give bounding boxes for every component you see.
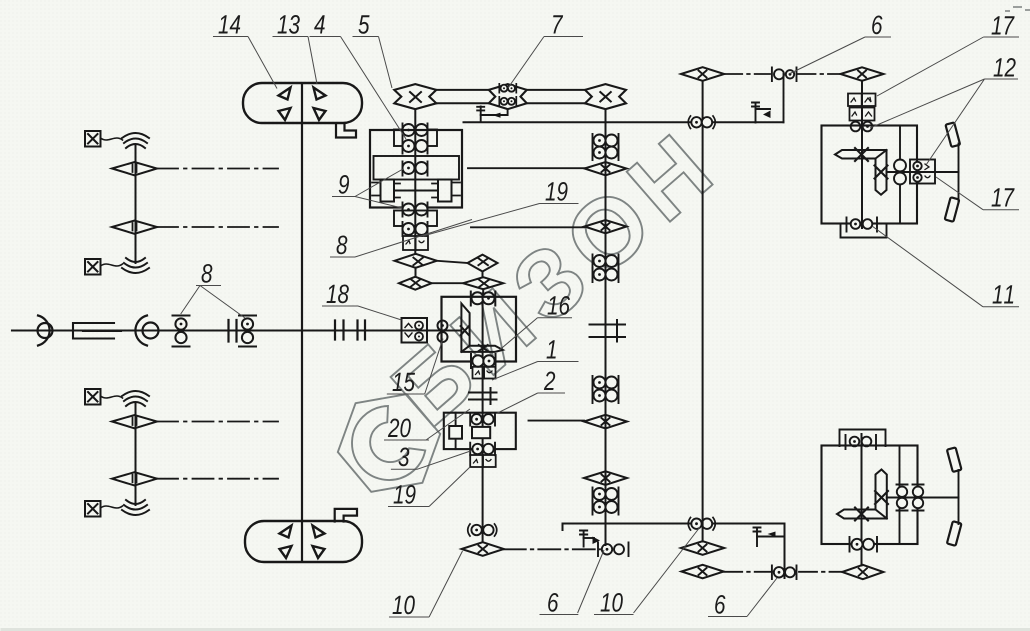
tire top [243,83,362,123]
label 17 [992,16,1015,34]
gearbox 9 shaft from pulley [414,109,416,254]
gearbox 9 chain pair row2 [403,140,428,154]
shaft x=861.5 bottom assembly [861,434,863,566]
label 15 [393,373,416,391]
pulley diamond L3 [112,415,157,428]
crank link (bottom assy) [958,470,960,524]
gearbox 9 lower bracket [394,211,437,227]
label 1 [547,340,556,358]
double-tick coupling x=339 [335,321,344,340]
spring squiggle 3 [122,391,149,406]
leader 9 [332,169,403,208]
gearbox 18 worm glyphs [405,324,412,338]
leader 3 [391,451,472,470]
leader 7 [508,37,583,89]
chain sprocket v-pair on axle x=247.5 [239,316,256,347]
crank link [958,144,960,202]
belt diamond left row1 [395,254,437,268]
leader 18 [322,306,402,320]
leader 5 [353,37,393,89]
double-tick coupling x=232 [229,320,237,342]
watermark text [390,134,713,428]
label 10 [601,593,623,612]
bottom sprocket pair x862 y224 [847,218,878,232]
counter pulley top-center with sprockets [489,84,527,109]
leader 8 axle [181,286,245,319]
label 18 [327,285,349,304]
gearbox 9 inner band [374,156,460,180]
freewheel clutch boxes below gearbox 2 [470,455,495,467]
top sprocket pair y441.5 [846,435,877,449]
leader 17 top [877,37,1019,96]
threshing drum band [835,150,887,195]
freewheel clutch boxes under gearbox 9 [403,236,428,250]
telescopic slip joint [73,323,121,339]
chain pair on bottom wire x=613 [598,543,629,557]
gearbox 9 chain pair row5 [403,222,428,236]
leader 10 mid [594,527,700,615]
label 2 [544,371,555,390]
header wire y228 [471,226,585,228]
diamond pulley x605 y226.5 [585,220,627,233]
label 6 [548,593,558,612]
elastic coupling right: circle [143,323,159,339]
bottom sprocket pair y538.5 [850,537,878,552]
gearbox 9 body [370,130,462,208]
wheel axle vertical wire [301,84,303,560]
crank blade bottom [945,197,960,222]
wire left from diamond y421.5 [529,420,585,422]
chain pair x605 row y261 [593,255,619,269]
label 19 [546,182,568,201]
top right gearbox body (thresher) [822,126,918,224]
gearbox 2 chain pair bottom [470,443,495,456]
bottom tensioner left [580,531,600,547]
bottom diamond pulley 1 on x702 [681,541,724,555]
leader 19 bottom [388,467,470,507]
label 20 [388,418,411,437]
pulley diamond L2 [112,221,157,234]
chain pair on pto wire y74 [772,68,797,82]
label 14 [219,15,241,33]
chain pair on bottom pto wire [772,566,797,580]
leader 8 gearbox [330,220,472,258]
bottom diamond pulley 2 on x702 [682,565,724,579]
left x-box 4 [85,501,123,517]
left suspension unit 2: x-box [85,389,123,405]
freewheel clutch boxes row2 x862 [850,108,875,121]
bearing circles on inner wall [894,160,906,172]
chain pair x605 row y507 [593,501,619,515]
leader 2 [497,393,566,414]
bottom right gearbox body [822,446,918,545]
header wire y168 [468,167,585,169]
dash-dot shaft from L4 [157,478,278,480]
gray corner marks [1005,7,1030,11]
belt diamond right row1 [468,255,498,272]
gearbox 9 chain pair row4 [403,203,428,217]
diamond pulley x605 y421.5 [584,415,627,429]
bearing column x=902 [897,485,908,511]
watermark logo hexagon with C [321,374,457,512]
gearbox 9 clutch discs [372,180,460,202]
label 8 [337,236,348,255]
freewheel clutch boxes below gearbox 15 [473,367,496,379]
tire bottom [245,521,362,562]
leader 6 mid [540,550,605,615]
leader 17 right [936,177,1019,210]
beater shaft y=172 [887,171,959,173]
label 12 [994,58,1016,77]
elastic coupling left: arc [38,316,50,346]
leader 1 [492,362,579,381]
tire bottom tread arrows [280,526,325,559]
variator pulley top-right (notched bowtie X) [585,84,626,109]
gearbox 15 body [442,297,517,362]
band X upper [461,326,469,335]
top diamond pulley x702 [681,67,724,81]
chain pair below gearbox 15 [471,354,496,368]
page bottom edge texture band [2,628,1030,631]
label 6 [872,15,882,34]
leader 10 bottom left [389,551,463,617]
freewheel clutch boxes row1 x862 [848,94,876,107]
chain pair x605 row y382.5 [593,376,619,390]
intermediate shaft links [416,268,484,294]
dash-dot pto wire y=74 [724,73,770,75]
label 8 [202,264,213,283]
label 10 [393,595,415,614]
belt diamond right row2 [463,277,503,289]
bottom right tensioner [754,528,785,547]
belt wire row1 [437,261,468,263]
label 5 [358,15,369,33]
shaft into top right gearbox [861,81,863,228]
gearbox 2 idler shaft [455,413,457,449]
crank blade top (bottom assy) [947,447,962,472]
chain pair x605 row y274.5 [593,268,619,282]
pulley diamond L1 [112,162,157,175]
double-tick coupling x=361 [358,321,366,340]
variator pulley top-left (notched bowtie X) [394,84,436,109]
label 3 [398,447,409,466]
drop link x=783.5 [783,74,785,122]
bottom pto dash-dot wire y=572.3 [724,571,772,573]
leader 6 top [789,37,891,74]
leader 4 [310,37,407,140]
dash-dot shaft from L1 [157,168,278,170]
leader 16 [500,318,573,350]
overload coupling sprockets bottom center [468,524,497,536]
wire from diamond to chain (dash-dot) [504,548,600,550]
chain pair x605 row y152.5 [593,146,619,160]
dash-dot shaft from L2 [157,226,278,228]
label 6 [715,595,725,614]
sprocket pair x862 y126 [851,122,873,132]
leader 15 [387,339,443,394]
gearbox 9 chain pair row3 [403,162,428,176]
tire top tread arrows [279,88,326,121]
gearbox 9 chain pair row1 [403,124,428,138]
gearbox 18 bevel circles [415,322,423,330]
label 17 [992,188,1015,206]
pto sprockets on wire y=122.3 [688,116,715,129]
label 19 [394,485,416,504]
chain pair x605 row y395.5 [593,389,619,403]
suspension shaft 1 [135,146,137,263]
leader 20 [384,409,470,440]
top right diamond pulley x862 [841,67,884,81]
belt wires bottom row [436,102,585,104]
leader 19 top [423,204,579,237]
bottom right assembly: top bracket [840,430,886,447]
band vertical part [837,470,887,519]
chain pair x605 row y494 [593,488,619,502]
dash-dot shaft from L3 [157,421,278,423]
band X at shaft [855,148,868,161]
bottom right diamond pulley [842,565,883,579]
safety coupling on center shaft [469,388,497,404]
crank blade bottom (bottom assy) [947,521,962,546]
left suspension unit 1: x-box [85,131,123,147]
chain sprocket v-pair on axle x=181 [173,316,190,347]
safety coupling x605 y330 [590,320,626,342]
belt diamond left row2 [399,277,432,290]
band X at beater [875,166,888,179]
leader 12 [870,79,1018,165]
counter wire y=523.5 [563,524,785,579]
gearbox 9 upper bracket [394,130,437,147]
spring squiggle 2 [122,258,149,273]
tensioner near x=760 [752,103,771,123]
long vertical shaft x=702.6 [702,81,704,542]
label 9 [339,175,349,194]
label 11 [993,285,1014,303]
leader 14 [213,37,277,89]
leader 13 [273,37,318,85]
gearbox 18 [402,318,428,343]
belt tensioner top-center [477,107,507,122]
chain pair x605 row y140.5 [593,134,619,148]
chain pair above gearbox 15 [471,292,496,306]
tire bottom bracket [335,509,357,522]
gearbox 2 chain pair top [470,413,495,426]
belt wires top row [436,89,585,91]
inclined conveyor band [461,304,502,352]
label 16 [548,296,570,315]
bearing column x=918 [913,485,924,511]
pulley diamond L4 [112,472,157,485]
bevel pair at box15 input x=443 [438,321,448,331]
belt wire row2 [432,282,464,284]
band X at shaft [855,508,868,521]
label 7 [553,15,563,33]
elastic coupling right: arc [135,316,147,346]
sub bracket below [841,224,887,238]
column shaft x=605.5 [605,109,607,545]
crank blade top [945,122,960,147]
left x-box 2 [85,259,123,275]
bottom pto dash-dot right part [799,571,842,573]
clutch box 12 [910,160,935,184]
long pto wire y=122.3 [464,121,784,123]
band X at beater [875,491,888,504]
label 4 [314,15,325,33]
inner wall [899,126,901,224]
tire top bracket [336,124,356,138]
dash-dot pto wire y74 right part [798,73,842,75]
gearbox 2 body [444,413,516,449]
leader 11 [872,226,1019,307]
beater shaft y=497.5 [887,497,959,499]
suspension shaft 2 [135,404,137,505]
spring squiggle 4 [122,500,149,515]
spring squiggle 1 [122,133,149,148]
overload sprockets on wire at x=702 [688,518,715,531]
main engine axle wire y=330.5 [12,329,460,331]
center main shaft x=482.6 [482,294,484,543]
gearbox 2 main block [472,427,490,438]
leader 6 right [708,578,777,617]
inner wall [899,446,901,545]
gearbox 2 idler block [449,426,462,439]
bottom center diamond pulley [462,542,504,556]
label 13 [278,15,300,34]
band X lower [479,345,488,351]
elastic coupling left: circle [38,323,53,338]
diamond pulley x605 y168.5 [585,162,627,175]
diamond pulley x605 y478 [584,471,627,485]
